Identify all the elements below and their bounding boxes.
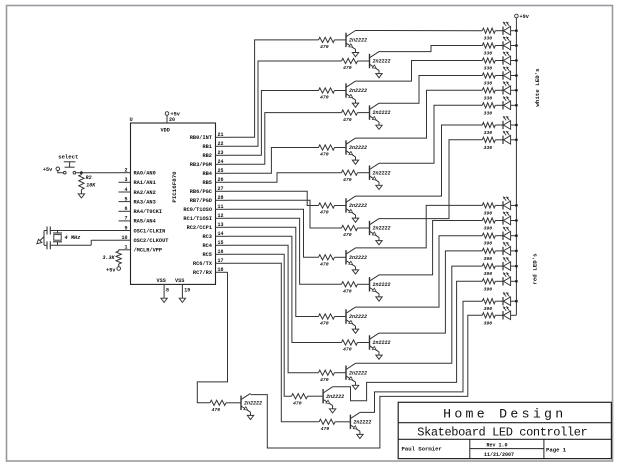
svg-text:390: 390 [484, 306, 493, 312]
resistor 390 + red LED D9 [482, 197, 516, 217]
transistor Q13 2n2222 [346, 363, 367, 389]
svg-text:2n2222: 2n2222 [349, 203, 367, 209]
pin 10 OSC2/CLKOUT [119, 235, 170, 244]
svg-text:RC6/TX: RC6/TX [193, 261, 213, 267]
svg-text:2: 2 [124, 168, 127, 174]
pin 28 RB7/PGD [190, 195, 228, 204]
svg-text:/MCLR/VPP: /MCLR/VPP [134, 248, 163, 254]
svg-text:2n2222: 2n2222 [326, 394, 344, 400]
resistor 390 + red LED D12 [482, 242, 516, 262]
wire [76, 172, 119, 174]
svg-text:RC2/CCP1: RC2/CCP1 [187, 225, 212, 231]
svg-text:2n2222: 2n2222 [373, 110, 391, 116]
rail junction [515, 44, 518, 47]
ground for caps [37, 237, 44, 244]
wire collector of Q4 [379, 76, 482, 104]
wire pin 18 to Q16 base [197, 272, 227, 403]
svg-text:470: 470 [343, 347, 352, 353]
wire collector of Q14 [333, 281, 483, 400]
svg-text:470: 470 [343, 289, 352, 295]
svg-text:2n2222: 2n2222 [373, 282, 391, 288]
wire pin to base [228, 218, 342, 284]
label red LEDs [532, 253, 539, 285]
svg-text:RA0/AN0: RA0/AN0 [134, 171, 156, 177]
rail junction [515, 138, 518, 141]
rail junction [515, 89, 518, 92]
svg-text:RC1/T1OSI: RC1/T1OSI [183, 216, 212, 222]
svg-text:4 MHz: 4 MHz [65, 235, 81, 241]
pin 24 RB3/PGM [190, 159, 228, 168]
transistor Q3 2n2222 [346, 81, 367, 107]
rail junction [515, 74, 518, 77]
wire cap join [43, 231, 45, 246]
svg-text:330: 330 [484, 145, 493, 151]
pin 15 RC4 [202, 240, 227, 249]
svg-text:11/21/2007: 11/21/2007 [484, 452, 514, 458]
wire collector of Q9 [356, 205, 483, 248]
transistor Q7 2n2222 [346, 196, 367, 222]
pin 3 RA1/AN1 [119, 177, 156, 186]
wire pin to base [228, 263, 320, 422]
node junction [80, 171, 83, 174]
title Home Design [443, 407, 566, 422]
svg-text:3.3K: 3.3K [102, 255, 115, 261]
svg-text:+9v: +9v [520, 14, 530, 20]
resistor 470 base of Q6 [342, 170, 370, 183]
title Skateboard LED controller [417, 426, 587, 440]
pin 7 RA5/AN4 [119, 216, 157, 225]
svg-text:470: 470 [343, 232, 352, 238]
svg-text:OSC2/CLKOUT: OSC2/CLKOUT [134, 238, 170, 244]
svg-text:19: 19 [184, 288, 190, 294]
svg-text:RB5: RB5 [202, 180, 212, 186]
resistor 390 + red LED D10 [482, 212, 516, 232]
svg-text:2n2222: 2n2222 [349, 370, 367, 376]
pin 2 RA0/AN0 [119, 168, 156, 177]
+5v supply for MCLR [106, 267, 120, 274]
resistor 470 base of Q2 [342, 58, 370, 71]
svg-text:RA3/AN3: RA3/AN3 [134, 199, 156, 205]
svg-text:390: 390 [484, 286, 493, 292]
rail junction [515, 250, 518, 253]
svg-text:VSS: VSS [157, 278, 166, 284]
VDD pin 20 with +5v [161, 112, 181, 134]
rail junction [515, 59, 518, 62]
rail junction [515, 265, 518, 268]
svg-text:RC3: RC3 [202, 234, 212, 240]
resistor 330 + white LED D6 [482, 97, 516, 117]
svg-text:1: 1 [124, 245, 127, 251]
pushbutton switch select [58, 154, 78, 174]
resistor 470 base of Q3 [319, 88, 347, 101]
rail junction [515, 219, 518, 222]
svg-text:2n2222: 2n2222 [349, 145, 367, 151]
pin 4 RA2/AN2 [119, 187, 156, 196]
svg-text:8: 8 [166, 288, 169, 294]
svg-text:Paul Sormier: Paul Sormier [402, 446, 442, 453]
svg-text:2n2222: 2n2222 [373, 340, 391, 346]
wire pin to base [228, 227, 319, 316]
wire pin to base [228, 236, 342, 342]
wire pin to base [228, 254, 292, 396]
wire [58, 171, 64, 173]
svg-text:RC7/RX: RC7/RX [193, 270, 213, 276]
svg-text:330: 330 [484, 130, 493, 136]
resistor 330 + white LED D5 [482, 82, 516, 102]
resistor 390 + red LED D11 [482, 227, 516, 247]
pin 11 RC0/T1OSO [183, 204, 227, 213]
transistor Q14 2n2222 [323, 387, 344, 413]
resistor 470 base of Q5 [319, 145, 347, 158]
svg-text:U: U [130, 117, 133, 123]
svg-text:470: 470 [212, 407, 221, 413]
wire pin to base [228, 91, 319, 156]
svg-text:390: 390 [484, 210, 493, 216]
transistor Q4 2n2222 [370, 103, 391, 129]
rail junction [515, 104, 518, 107]
resistor 470 base of Q16 [210, 400, 241, 413]
wire pin to base [228, 148, 319, 174]
svg-text:3: 3 [124, 177, 127, 183]
microcontroller U PIC16F870 body [130, 117, 216, 284]
pin 18 RC7/RX [193, 267, 228, 276]
wire OSC2 lower [50, 240, 118, 245]
svg-text:470: 470 [320, 262, 329, 268]
svg-text:16: 16 [218, 249, 224, 255]
resistor 470 base of Q4 [342, 110, 370, 123]
svg-text:2n2222: 2n2222 [373, 59, 391, 65]
svg-text:RB7/PGD: RB7/PGD [190, 198, 212, 204]
svg-text:28: 28 [218, 195, 224, 201]
svg-text:13: 13 [218, 222, 224, 228]
svg-text:470: 470 [320, 44, 329, 50]
svg-text:470: 470 [320, 210, 329, 216]
svg-text:select: select [58, 154, 78, 161]
resistor 470 base of Q13 [319, 370, 347, 383]
transistor Q16 2n2222 [241, 393, 262, 419]
resistor 470 base of Q10 [342, 282, 370, 295]
rail junction [515, 234, 518, 237]
svg-text:OSC1/CLKIN: OSC1/CLKIN [134, 228, 166, 234]
svg-text:PIC16F870: PIC16F870 [171, 171, 178, 203]
author Paul Sormier [402, 446, 442, 453]
wire pin to base [228, 40, 319, 137]
svg-text:14: 14 [218, 231, 224, 237]
pin 9 OSC1/CLKIN [119, 225, 166, 234]
svg-text:RB0/INT: RB0/INT [190, 135, 213, 141]
label white LEDs [534, 68, 541, 107]
transistor Q12 2n2222 [370, 333, 391, 359]
svg-text:470: 470 [320, 95, 329, 101]
svg-text:2n2222: 2n2222 [373, 170, 391, 176]
svg-text:RB4: RB4 [202, 171, 212, 177]
pin 23 RB2 [202, 150, 227, 159]
resistor 390 + red LED D15 [482, 292, 516, 312]
rail junction [515, 204, 518, 207]
svg-text:12: 12 [218, 213, 224, 219]
svg-text:10K: 10K [86, 182, 96, 188]
pin 26 RB5 [202, 177, 227, 186]
svg-text:470: 470 [320, 152, 329, 158]
transistor Q11 2n2222 [346, 307, 367, 333]
svg-text:RA5/AN4: RA5/AN4 [134, 219, 157, 225]
pin 13 RC2/CCP1 [187, 222, 228, 231]
svg-text:390: 390 [484, 241, 493, 247]
svg-text:390: 390 [484, 320, 493, 326]
resistor R2 10K [79, 173, 96, 194]
wire pin to base [228, 173, 342, 183]
wire collector of Q12 [379, 251, 482, 333]
pin 22 RB1 [202, 141, 227, 150]
ground [78, 194, 84, 198]
resistor 470 base of Q1 [319, 37, 347, 50]
wire OSC1 [50, 230, 118, 232]
svg-text:470: 470 [343, 177, 352, 183]
transistor Q10 2n2222 [370, 275, 391, 301]
pin 12 RC1/T1OSI [183, 213, 227, 222]
svg-text:470: 470 [293, 400, 302, 406]
svg-text:21: 21 [218, 132, 224, 138]
svg-text:2n2222: 2n2222 [244, 400, 262, 406]
wire collector of Q13 [356, 266, 483, 363]
svg-text:470: 470 [320, 377, 329, 383]
capacitor C1 [44, 227, 50, 235]
svg-text:RB1: RB1 [202, 144, 212, 150]
resistor 470 base of Q8 [342, 225, 370, 238]
svg-text:red LED's: red LED's [532, 253, 539, 285]
svg-text:17: 17 [218, 258, 224, 264]
svg-text:9: 9 [124, 225, 127, 231]
wire collector of Q5 [356, 90, 483, 138]
svg-text:RC4: RC4 [202, 243, 212, 249]
pin 25 RB4 [202, 168, 227, 177]
svg-text:26: 26 [218, 177, 224, 183]
transistor Q6 2n2222 [370, 163, 391, 189]
transistor Q1 2n2222 [346, 31, 367, 57]
svg-text:white LED's: white LED's [534, 68, 541, 107]
resistor 470 base of Q9 [319, 255, 347, 268]
rev 1.0 [486, 442, 507, 448]
svg-text:5: 5 [124, 196, 127, 202]
svg-text:Home Design: Home Design [443, 407, 566, 422]
svg-text:Skateboard LED controller: Skateboard LED controller [417, 426, 587, 440]
svg-text:Rev 1.0: Rev 1.0 [486, 442, 507, 448]
wire collector of Q7 [356, 125, 483, 196]
date 11/21/2007 [484, 452, 514, 458]
svg-text:RB3/PGM: RB3/PGM [190, 162, 212, 168]
resistor 390 + red LED D14 [482, 273, 516, 293]
pin 21 RB0/INT [190, 132, 228, 141]
resistor 330 + white LED D2 [482, 37, 516, 57]
wire pin to base [228, 61, 342, 146]
svg-text:RC0/T1OSO: RC0/T1OSO [183, 207, 212, 213]
rail junction [515, 300, 518, 303]
svg-text:6: 6 [124, 206, 127, 212]
wire collector of Q8 [379, 140, 482, 219]
pin 1 /MCLR/VPP [119, 245, 163, 254]
svg-text:25: 25 [218, 168, 224, 174]
wire collector of Q2 [379, 46, 482, 52]
resistor 390 + red LED D16 [482, 307, 516, 327]
svg-text:+5v: +5v [43, 167, 53, 173]
resistor 330 + white LED D3 [482, 52, 516, 72]
VSS pin 8 ground [157, 278, 170, 303]
svg-text:27: 27 [218, 186, 224, 192]
svg-text:2n2222: 2n2222 [349, 38, 367, 44]
svg-text:15: 15 [218, 240, 224, 246]
wire pin to base [228, 113, 342, 165]
resistor 470 base of Q11 [319, 314, 347, 327]
rail junction [515, 29, 518, 32]
svg-text:RA1/AN1: RA1/AN1 [134, 180, 156, 186]
svg-text:330: 330 [484, 51, 493, 57]
svg-text:2n2222: 2n2222 [349, 255, 367, 261]
svg-text:330: 330 [484, 81, 493, 87]
wire collector of Q1 [356, 30, 483, 32]
svg-text:RB2: RB2 [202, 153, 212, 159]
svg-text:330: 330 [484, 110, 493, 116]
svg-text:10: 10 [121, 235, 127, 241]
VSS pin 19 ground [175, 278, 190, 303]
resistor 3.3K on /MCLR [102, 250, 121, 267]
svg-text:RC5: RC5 [202, 252, 212, 258]
wire collector of Q16 [251, 315, 483, 448]
pin 27 RB6/PGC [190, 186, 228, 195]
wire collector of Q15 [360, 301, 482, 412]
svg-text:330: 330 [484, 66, 493, 72]
wire pin to base [228, 191, 319, 205]
capacitor C2 [44, 241, 50, 249]
svg-text:RA4/T0CKI: RA4/T0CKI [134, 209, 163, 215]
wire collector of Q11 [356, 236, 483, 307]
svg-text:2n2222: 2n2222 [349, 314, 367, 320]
svg-text:20: 20 [169, 117, 175, 123]
svg-text:2n2222: 2n2222 [349, 88, 367, 94]
resistor 470 base of Q7 [319, 203, 347, 216]
pin 16 RC5 [202, 249, 227, 258]
svg-text:2n2222: 2n2222 [373, 226, 391, 232]
pin 6 RA4/T0CKI [119, 206, 163, 215]
resistor 330 + white LED D4 [482, 67, 516, 87]
+5v supply for switch [43, 167, 60, 173]
svg-text:24: 24 [218, 159, 224, 165]
resistor 330 + white LED D7 [482, 116, 516, 136]
resistor 470 base of Q14 [292, 394, 324, 407]
+9v supply rail [515, 14, 530, 315]
resistor 330 + white LED D1 [482, 22, 516, 42]
pin 5 RA3/AN3 [119, 196, 156, 205]
svg-text:4: 4 [124, 187, 127, 193]
svg-text:390: 390 [484, 256, 493, 262]
svg-text:390: 390 [484, 271, 493, 277]
crystal X1 4 MHz [53, 231, 80, 246]
svg-text:2n2222: 2n2222 [353, 419, 371, 425]
wire collector of Q6 [379, 105, 482, 163]
rail junction [515, 124, 518, 127]
rail junction [515, 280, 518, 283]
svg-text:470: 470 [343, 117, 352, 123]
wire collector of Q3 [356, 61, 483, 82]
svg-text:11: 11 [218, 204, 224, 210]
svg-text:RB6/PGC: RB6/PGC [190, 189, 213, 195]
title block frame [398, 402, 611, 458]
svg-text:330: 330 [484, 95, 493, 101]
svg-text:330: 330 [484, 36, 493, 42]
svg-text:23: 23 [218, 150, 224, 156]
transistor Q15 2n2222 [350, 412, 371, 438]
svg-text:Page 1: Page 1 [546, 447, 567, 454]
svg-text:470: 470 [320, 321, 329, 327]
wire pin to base [228, 245, 319, 372]
svg-text:18: 18 [218, 267, 224, 273]
svg-text:VSS: VSS [175, 278, 184, 284]
resistor 330 + white LED D8 [482, 131, 516, 151]
resistor 470 base of Q12 [342, 340, 370, 353]
svg-text:22: 22 [218, 141, 224, 147]
svg-text:RA2/AN2: RA2/AN2 [134, 190, 156, 196]
transistor Q2 2n2222 [370, 52, 391, 78]
resistor 470 base of Q15 [319, 419, 350, 432]
wire pin to base [228, 200, 342, 228]
pin 14 RC3 [202, 231, 227, 240]
transistor Q5 2n2222 [346, 138, 367, 164]
resistor 390 + red LED D13 [482, 257, 516, 277]
transistor Q8 2n2222 [370, 219, 391, 245]
wire collector of Q10 [379, 221, 482, 275]
svg-text:7: 7 [124, 216, 127, 222]
pin 17 RC6/TX [193, 258, 228, 267]
svg-text:+5v: +5v [106, 268, 116, 274]
svg-text:R2: R2 [86, 175, 92, 181]
svg-text:VDD: VDD [161, 128, 170, 134]
svg-text:390: 390 [484, 226, 493, 232]
svg-text:470: 470 [321, 426, 330, 432]
page 1 [546, 447, 567, 454]
transistor Q9 2n2222 [346, 248, 367, 274]
svg-text:470: 470 [343, 65, 352, 71]
wire pin to base [228, 209, 319, 257]
